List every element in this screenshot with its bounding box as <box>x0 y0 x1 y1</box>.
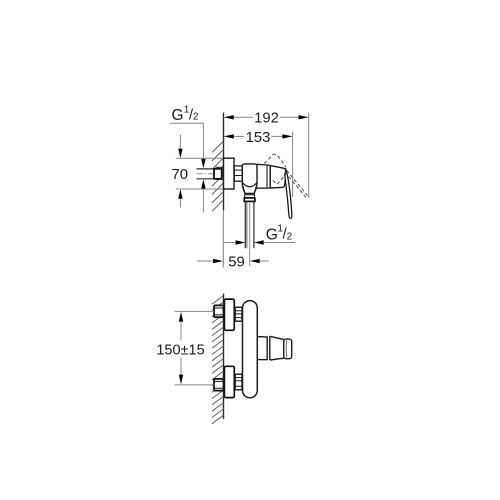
lever handle (down position, solid) <box>285 170 292 219</box>
lower S-union escutcheon block <box>224 366 234 397</box>
nipple square (G1/2 thread) <box>214 169 222 179</box>
shower hose outer lines <box>245 202 254 249</box>
G1/2 leader tail line <box>202 189 204 213</box>
dimension 150±15 line lower <box>180 358 182 376</box>
mixer body capsule (top view) <box>243 301 258 398</box>
handle dome (side view) <box>270 166 286 188</box>
cartridge section <box>257 164 270 188</box>
dimension 59 left line <box>197 260 213 262</box>
G1/2 leader down arrowhead (to pipe top) <box>201 159 205 169</box>
G1/2 hose leader right arrowhead (points left at hose) <box>236 240 246 244</box>
hose connector collar <box>245 195 255 198</box>
dimension 153 line <box>234 135 284 137</box>
union nut (side view) <box>234 166 242 181</box>
dimension 150±15 down arrowhead <box>179 375 183 385</box>
label G 1/2 (hose thread) <box>266 224 293 244</box>
socket edge above nipple <box>216 166 223 168</box>
G1/2 hose leader left arrowhead (points right at hose) <box>254 240 264 244</box>
pipe centerline (dash-dot) <box>197 173 223 175</box>
G1/2 hose leader right line <box>264 242 295 244</box>
dimension 150±15 extension line top <box>175 310 214 312</box>
extension line y=158.2 (flange top) <box>176 157 224 159</box>
dimension 70 up arrowhead <box>178 189 182 199</box>
extension line y=189 (flange bottom) <box>176 188 224 190</box>
svg-text:59: 59 <box>228 254 244 270</box>
cartridge vertical line 2 (dome base) <box>269 166 271 188</box>
spout/lever end cap <box>284 339 292 359</box>
raised lever dashed shaft upper line <box>287 170 309 196</box>
shower hose inner line <box>246 202 248 249</box>
lower wall nut facet lines <box>214 381 224 388</box>
wall flange (escutcheon) <box>224 158 235 189</box>
dimension 150±15 extension line bottom <box>175 384 214 386</box>
wall extension line down to 59 dim <box>222 210 224 268</box>
body bottom inner arc <box>242 183 257 187</box>
dimension 150±15 line upper <box>180 321 182 341</box>
wall line (top view) <box>223 294 225 420</box>
upper S-union escutcheon block <box>224 299 234 330</box>
upper union nut (top view) <box>235 307 242 321</box>
extension line x=308.7 for 192 <box>308 113 310 198</box>
extension line x=292.6 for 153 <box>292 132 294 197</box>
hose centerline <box>249 203 251 266</box>
G1/2 hose leader left line <box>224 242 236 244</box>
dimension 192 line <box>234 116 300 118</box>
socket edge below nipple <box>216 178 223 180</box>
spout/lever section 2 cone <box>270 336 284 360</box>
lower union nut (top view) <box>235 374 242 390</box>
hidden lever edge inside dome (dashed) <box>273 174 286 184</box>
svg-text:150±15: 150±15 <box>156 342 204 358</box>
supply pipe nipple lines <box>197 168 215 170</box>
dimension 70 down arrowhead <box>178 149 182 159</box>
mixer body (side view) <box>242 164 257 194</box>
dimension 153 left arrowhead <box>224 134 234 138</box>
svg-text:2: 2 <box>287 231 293 242</box>
wall hatching (side view) <box>212 141 224 211</box>
svg-text:G: G <box>266 226 278 243</box>
label G 1/2 (top left) <box>172 104 199 124</box>
svg-text:G: G <box>172 107 184 124</box>
leader underline of G1/2 <box>170 122 204 124</box>
dimension 59 left-pointing arrowhead <box>250 259 260 263</box>
pipe white band <box>197 169 215 178</box>
raised lever dashed shaft lower line <box>285 172 307 198</box>
hose connector nut <box>244 198 255 202</box>
upper union nut facets <box>235 311 242 318</box>
svg-text:192: 192 <box>254 111 279 127</box>
wall hatching (top view) <box>212 296 224 424</box>
dimension 59 right line <box>260 260 269 262</box>
wall line (side view) <box>223 113 225 211</box>
spout/lever section 1 <box>257 337 267 360</box>
dimension 153 right arrowhead <box>282 134 292 138</box>
dimension 70 upper line <box>179 135 181 150</box>
cartridge vertical line 1 <box>266 165 268 188</box>
G1/2 leader up arrowhead (to pipe bottom) <box>201 179 205 189</box>
lever handle raised position (dashed outline over dome) <box>264 154 308 198</box>
svg-text:2: 2 <box>193 112 199 123</box>
upper wall nut <box>214 305 224 317</box>
end cap inner arc <box>285 340 288 357</box>
body-bottom taper lines <box>242 187 257 194</box>
dimension 192 left arrowhead <box>224 115 234 119</box>
leader vertical line of G1/2 <box>202 123 204 159</box>
lower union nut facets <box>235 378 242 387</box>
dimension 150±15 up arrowhead <box>179 312 183 322</box>
lower wall nut <box>214 379 224 391</box>
union nut facet lines <box>234 170 242 175</box>
upper wall nut facet lines <box>214 308 224 315</box>
dimension 192 right arrowhead <box>299 115 309 119</box>
dimension 70 lower line <box>179 199 181 208</box>
dimension 59 right-pointing arrowhead <box>213 259 223 263</box>
svg-text:70: 70 <box>171 166 188 183</box>
svg-text:153: 153 <box>246 130 271 146</box>
